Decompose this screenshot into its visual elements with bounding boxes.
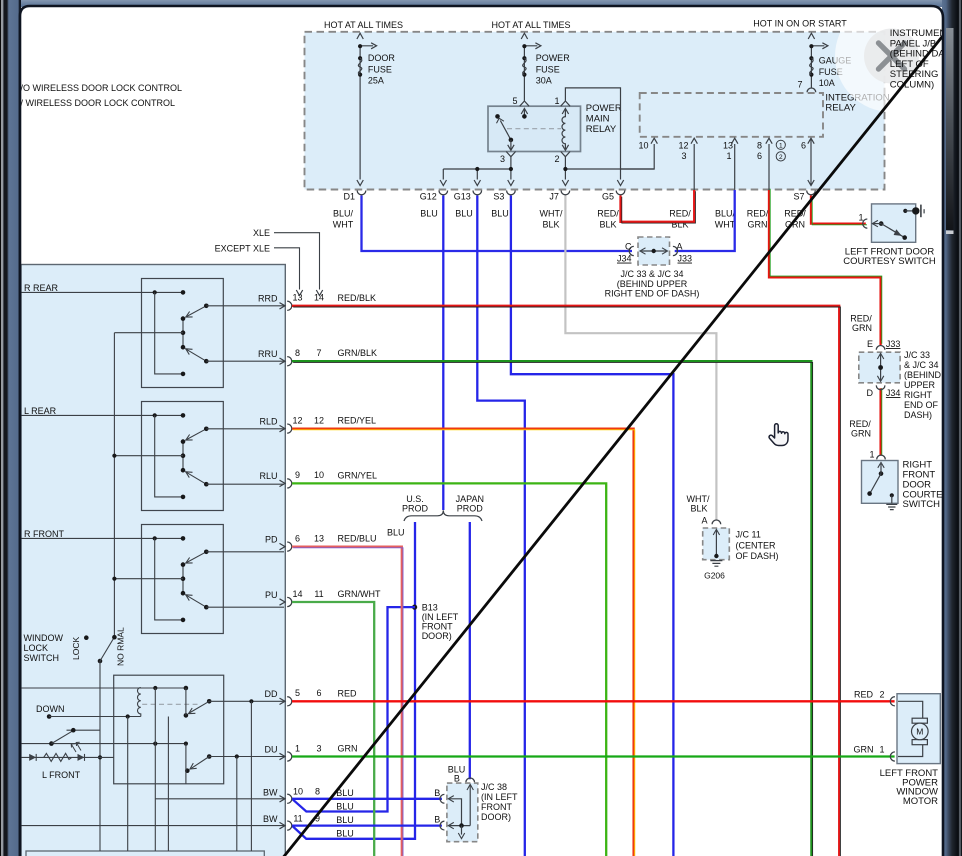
svg-text:RRU: RRU bbox=[258, 349, 278, 359]
svg-text:B: B bbox=[434, 815, 440, 825]
svg-text:SWITCH: SWITCH bbox=[24, 653, 60, 663]
splice B13 bbox=[412, 605, 417, 610]
window lock bus bbox=[113, 333, 115, 638]
wire BLU: BW1 straight to J/C38 pin B bbox=[292, 798, 442, 800]
gray stubs: integration pins 12/3 13/1 8/6 through J/B edge bbox=[693, 144, 695, 191]
svg-text:UPPER: UPPER bbox=[904, 380, 936, 390]
diagonal annotation line bbox=[284, 35, 944, 856]
svg-text:J/C 11: J/C 11 bbox=[736, 530, 761, 540]
svg-text:BLU/: BLU/ bbox=[715, 208, 736, 218]
svg-text:FUSE: FUSE bbox=[536, 64, 560, 74]
switch module L FRONT (latching relay) bbox=[114, 675, 224, 784]
connector RLU on master switch, pins 9/10 bbox=[280, 480, 286, 486]
lock contact (dead end) bbox=[84, 635, 89, 640]
svg-text:J/C 33 & J/C 34: J/C 33 & J/C 34 bbox=[620, 269, 683, 279]
internal verticals to lower edge bbox=[127, 717, 129, 852]
svg-text:2: 2 bbox=[779, 154, 783, 161]
svg-text:30A: 30A bbox=[536, 76, 552, 86]
integration pin 8/6 bbox=[766, 138, 772, 144]
svg-text:EXCEPT XLE: EXCEPT XLE bbox=[215, 243, 270, 253]
svg-text:OF DASH): OF DASH) bbox=[736, 551, 779, 561]
svg-text:WHT/: WHT/ bbox=[687, 494, 710, 504]
svg-text:GRN: GRN bbox=[851, 429, 871, 439]
ground G206 bbox=[710, 561, 722, 567]
fuse DOOR FUSE 25A bbox=[359, 47, 361, 180]
window chrome right edge bbox=[942, 0, 962, 856]
window chrome left edge bbox=[0, 0, 21, 856]
switch module R FRONT bbox=[142, 525, 224, 634]
R REAR center contacts bbox=[182, 319, 184, 348]
wire: relay pin2 / rail to pin10 riser and J7 bbox=[564, 157, 566, 180]
svg-text:BW: BW bbox=[263, 814, 278, 824]
R REAR up-contact arm bbox=[186, 349, 207, 361]
svg-text:W/ WIRELESS DOOR LOCK CONTROL: W/ WIRELESS DOOR LOCK CONTROL bbox=[12, 98, 175, 108]
relay internal: pin5 stub and contact bbox=[523, 110, 525, 117]
svg-text:25A: 25A bbox=[368, 76, 384, 86]
svg-text:1: 1 bbox=[726, 151, 731, 161]
wire: R FRONT feed bbox=[21, 537, 183, 539]
wire: DD output inside box bbox=[209, 700, 284, 702]
svg-text:5: 5 bbox=[512, 96, 517, 106]
svg-text:A: A bbox=[701, 515, 707, 525]
J/C38 internals bbox=[450, 799, 462, 826]
L FRONT relay coil bbox=[137, 688, 140, 717]
svg-text:PROD: PROD bbox=[402, 504, 429, 514]
motor internal wiring bbox=[898, 701, 923, 718]
manual switch arm near lamp bbox=[49, 741, 54, 746]
svg-text:RIGHT: RIGHT bbox=[904, 390, 933, 400]
svg-text:14: 14 bbox=[292, 589, 302, 599]
svg-text:12: 12 bbox=[292, 415, 302, 425]
R FRONT center contacts bbox=[182, 565, 184, 594]
svg-text:(BEHIND: (BEHIND bbox=[904, 370, 942, 380]
svg-text:SWITCH: SWITCH bbox=[903, 499, 941, 510]
svg-text:S7: S7 bbox=[793, 191, 804, 201]
switch module L REAR bbox=[142, 402, 224, 511]
svg-text:MAIN: MAIN bbox=[586, 114, 610, 125]
svg-text:(BEHIND UPPER: (BEHIND UPPER bbox=[617, 279, 688, 289]
svg-text:HOT IN ON OR START: HOT IN ON OR START bbox=[753, 19, 847, 29]
svg-text:RIGHT END OF DASH): RIGHT END OF DASH) bbox=[605, 288, 700, 298]
svg-text:XLE: XLE bbox=[253, 228, 270, 238]
wire: relay pin1 up-over-down to G5 junction bbox=[565, 88, 620, 180]
svg-text:END OF: END OF bbox=[904, 400, 939, 410]
R FRONT output wires to connectors bbox=[206, 551, 284, 553]
svg-text:BLU/: BLU/ bbox=[333, 208, 354, 218]
svg-text:J7: J7 bbox=[549, 191, 559, 201]
svg-text:NO RMAL: NO RMAL bbox=[116, 627, 126, 666]
svg-text:L REAR: L REAR bbox=[24, 406, 57, 416]
svg-text:GRN: GRN bbox=[854, 744, 874, 754]
R REAR common feed from lock bus bbox=[114, 332, 183, 334]
svg-text:(IN LEFT: (IN LEFT bbox=[481, 792, 518, 802]
svg-text:R REAR: R REAR bbox=[24, 283, 59, 293]
junction connector J/C 38 bbox=[466, 778, 475, 782]
svg-text:1: 1 bbox=[295, 743, 300, 753]
svg-text:DU: DU bbox=[265, 744, 278, 754]
svg-text:GRN/BLK: GRN/BLK bbox=[338, 348, 378, 358]
svg-text:WHT: WHT bbox=[715, 220, 736, 230]
wire: mid rail bbox=[21, 743, 186, 745]
junction connector J/C 33 & J/C 34 (C/A) bbox=[638, 237, 670, 265]
svg-text:8: 8 bbox=[757, 141, 762, 151]
svg-text:RLD: RLD bbox=[259, 416, 278, 426]
svg-text:U.S.: U.S. bbox=[406, 494, 424, 504]
svg-text:COLUMN): COLUMN) bbox=[890, 80, 934, 91]
svg-text:RED/: RED/ bbox=[669, 208, 691, 218]
relay box: integration relay (dashed) bbox=[640, 93, 823, 137]
svg-text:RED/YEL: RED/YEL bbox=[338, 416, 377, 426]
connector variant marks (1)(2) bbox=[776, 140, 785, 149]
svg-text:POWER: POWER bbox=[536, 53, 571, 63]
svg-text:RED/: RED/ bbox=[747, 208, 769, 218]
svg-text:BLU: BLU bbox=[336, 801, 354, 811]
svg-text:2: 2 bbox=[879, 690, 884, 700]
instrument panel junction block (dashed box) bbox=[305, 32, 885, 190]
integration pin 13/1 bbox=[732, 138, 738, 144]
svg-text:6: 6 bbox=[801, 141, 806, 151]
wire BLU/WHT: J/C33 pin A to integration 13/1 bbox=[675, 190, 735, 251]
svg-text:G12: G12 bbox=[420, 191, 437, 201]
wire BLU/WHT: D1 to J/C34 pin C bbox=[362, 196, 633, 252]
connector DU on master switch, pins 1/3 bbox=[280, 753, 286, 759]
svg-text:DOOR): DOOR) bbox=[481, 812, 511, 822]
svg-text:D1: D1 bbox=[343, 191, 355, 201]
wire: door fuse to D1 with down arrow bbox=[357, 180, 363, 186]
svg-text:RELAY: RELAY bbox=[825, 103, 856, 114]
wire RED/GRN: J/C34 pin D down to right front door courtesy switch bbox=[879, 388, 881, 455]
svg-text:6: 6 bbox=[295, 533, 300, 543]
relay internal: dashed link bbox=[507, 128, 561, 130]
connector DD on master switch, pins 5/6 bbox=[280, 698, 286, 704]
connector G5 at x=620.5 on J/B edge bbox=[616, 191, 625, 195]
connector PU on master switch, pins 14/11 bbox=[280, 599, 286, 605]
L REAR up-contact arm bbox=[186, 472, 207, 484]
svg-text:13: 13 bbox=[314, 533, 324, 543]
svg-text:J34: J34 bbox=[886, 388, 901, 398]
svg-text:S3: S3 bbox=[493, 191, 504, 201]
door plunger contact bbox=[903, 209, 907, 213]
svg-text:PD: PD bbox=[265, 534, 278, 544]
svg-text:RED: RED bbox=[338, 688, 358, 698]
svg-text:GRN: GRN bbox=[748, 220, 768, 230]
L REAR output wires to connectors bbox=[206, 428, 284, 430]
motor symbol M bbox=[912, 718, 927, 723]
integration pin 12/3 bbox=[691, 138, 697, 144]
svg-text:BLK: BLK bbox=[599, 220, 616, 230]
svg-text:B: B bbox=[434, 788, 440, 798]
svg-text:& J/C 34: & J/C 34 bbox=[904, 360, 939, 370]
svg-text:C: C bbox=[625, 242, 632, 252]
svg-text:GRN: GRN bbox=[852, 323, 872, 333]
connector G13 at x=477.3 on J/B edge bbox=[473, 191, 482, 195]
svg-text:7: 7 bbox=[797, 80, 802, 90]
svg-text:RED: RED bbox=[854, 690, 874, 700]
svg-text:BLU: BLU bbox=[420, 208, 438, 218]
svg-text:G5: G5 bbox=[602, 191, 614, 201]
svg-text:RED/: RED/ bbox=[597, 208, 619, 218]
svg-text:DOWN: DOWN bbox=[36, 704, 65, 714]
svg-text:RED/BLU: RED/BLU bbox=[338, 534, 377, 544]
bottom partial component box bbox=[26, 851, 264, 856]
relay internal: movable arm bbox=[500, 121, 511, 140]
svg-text:BLU: BLU bbox=[387, 528, 405, 538]
svg-text:G13: G13 bbox=[454, 191, 471, 201]
wire RED/GRN: S7 to left front door courtesy switch bbox=[811, 196, 866, 224]
window chrome top band bbox=[0, 0, 962, 7]
R REAR down-contact arm bbox=[186, 306, 207, 317]
svg-text:WINDOW: WINDOW bbox=[24, 633, 64, 643]
wire: integration pin 10 down-left joining G5 drop bbox=[621, 144, 655, 169]
R FRONT up-contact arm bbox=[186, 595, 207, 607]
L REAR common feed from lock bus bbox=[114, 455, 183, 457]
svg-text:10: 10 bbox=[638, 141, 648, 151]
R REAR output wires to connectors bbox=[206, 305, 284, 307]
DD switch arm bbox=[207, 699, 212, 704]
svg-text:GRN/WHT: GRN/WHT bbox=[338, 589, 381, 599]
relay internal: fixed contact bbox=[495, 114, 500, 119]
wire RED/GRN: integration 8/6 to E/J33 riser bbox=[769, 190, 881, 345]
switch: left front door courtesy switch bbox=[872, 204, 916, 242]
svg-text:RED/: RED/ bbox=[850, 314, 872, 324]
wire: lock switch common down bbox=[99, 661, 101, 851]
svg-text:1: 1 bbox=[554, 96, 559, 106]
DU switch arm bbox=[207, 754, 212, 759]
svg-text:HOT AT ALL TIMES: HOT AT ALL TIMES bbox=[491, 20, 570, 30]
svg-text:10: 10 bbox=[314, 470, 324, 480]
svg-text:DOOR): DOOR) bbox=[422, 631, 452, 641]
svg-text:POWER: POWER bbox=[586, 103, 622, 114]
fuse POWER FUSE 30A bbox=[523, 47, 525, 101]
svg-text:3: 3 bbox=[500, 154, 505, 164]
svg-text:BLU: BLU bbox=[491, 208, 509, 218]
lock switch arm bbox=[98, 659, 103, 664]
connector S7 at x=811.0 on J/B edge bbox=[807, 191, 816, 195]
wire BLU: BW2 straight to J/C38 pin B bbox=[292, 824, 442, 826]
L REAR down-contact arm bbox=[186, 429, 207, 440]
svg-text:FRONT: FRONT bbox=[481, 802, 512, 812]
connector RRD on master switch, pins 13/14 bbox=[280, 303, 286, 309]
BW internal feeds bbox=[155, 798, 284, 800]
svg-text:PU: PU bbox=[265, 590, 278, 600]
svg-text:BLU: BLU bbox=[336, 828, 354, 838]
wire BLU (Japan prod): down to J/C 38 bbox=[469, 522, 471, 779]
svg-text:12: 12 bbox=[678, 141, 688, 151]
svg-text:9: 9 bbox=[295, 470, 300, 480]
ground for right courtesy switch bbox=[886, 504, 897, 509]
top-left outer corner patch bbox=[0, 0, 21, 7]
wire: top contact rail bbox=[21, 687, 186, 689]
mouse cursor (hand pointer) bbox=[769, 424, 788, 446]
wire RED/BLK: integration 12/3 loop to G5 bbox=[621, 190, 695, 222]
svg-text:1: 1 bbox=[779, 143, 783, 150]
svg-text:J33: J33 bbox=[886, 339, 901, 349]
svg-text:7: 7 bbox=[316, 348, 321, 358]
wire: R REAR feed bbox=[21, 291, 183, 293]
svg-text:E: E bbox=[867, 339, 873, 349]
svg-text:RRD: RRD bbox=[258, 294, 278, 304]
svg-text:MOTOR: MOTOR bbox=[903, 796, 938, 807]
svg-text:HOT AT ALL TIMES: HOT AT ALL TIMES bbox=[324, 20, 403, 30]
svg-text:BLK: BLK bbox=[542, 220, 559, 230]
svg-text:8: 8 bbox=[295, 348, 300, 358]
internal double arrow with splice bbox=[642, 250, 667, 252]
svg-text:D: D bbox=[867, 388, 874, 398]
wire BLU: B13 branch to BW1 jog bbox=[292, 607, 415, 811]
switch module R REAR bbox=[142, 279, 224, 388]
connector S3 at x=510.9 on J/B edge bbox=[507, 191, 516, 195]
svg-text:J/C 38: J/C 38 bbox=[481, 782, 507, 792]
svg-text:BLU: BLU bbox=[455, 208, 473, 218]
wire BLU: S3 drop, across, down to page bottom bbox=[511, 196, 674, 856]
motor: left front power window motor bbox=[897, 694, 940, 764]
connector G12 at x=443.3 on J/B edge bbox=[439, 191, 448, 195]
svg-text:DOOR: DOOR bbox=[368, 53, 396, 63]
wire BLU: G12 drop to US/JAPAN split bbox=[442, 196, 444, 511]
wire: relay pin3 rail to G12 G13 S3 bbox=[443, 157, 511, 169]
svg-text:JAPAN: JAPAN bbox=[456, 494, 484, 504]
dashed link of latching relay bbox=[142, 703, 197, 705]
connector D1 at x=361.5 on J/B edge bbox=[357, 191, 366, 195]
wire: down input bbox=[47, 714, 52, 719]
svg-text:WHT: WHT bbox=[333, 220, 354, 230]
svg-text:G206: G206 bbox=[704, 570, 725, 580]
scrollbar thumb bbox=[946, 28, 954, 230]
svg-text:LOCK: LOCK bbox=[24, 643, 49, 653]
wire BLU: G13 drop, jog, down to page bottom bbox=[477, 196, 525, 856]
relay internal: coil bbox=[562, 110, 565, 150]
svg-text:8: 8 bbox=[315, 787, 320, 797]
close button halo bbox=[835, 0, 947, 112]
svg-text:LOCK: LOCK bbox=[71, 637, 81, 660]
svg-text:RED/: RED/ bbox=[849, 419, 871, 429]
svg-text:WHT/: WHT/ bbox=[540, 208, 563, 218]
relay box: power main relay bbox=[488, 106, 581, 151]
door plunger contact to ground bbox=[890, 493, 894, 497]
close button bbox=[864, 29, 919, 84]
L REAR center contacts bbox=[182, 442, 184, 471]
svg-text:J33: J33 bbox=[678, 254, 693, 264]
R FRONT common feed from lock bus bbox=[114, 578, 183, 580]
svg-text:L FRONT: L FRONT bbox=[42, 770, 81, 780]
connector RRU on master switch, pins 8/7 bbox=[280, 358, 286, 364]
LED arrows bbox=[71, 744, 76, 752]
svg-text:3: 3 bbox=[316, 743, 321, 753]
svg-text:11: 11 bbox=[314, 589, 323, 599]
svg-text:A: A bbox=[677, 242, 683, 252]
svg-text:R FRONT: R FRONT bbox=[24, 529, 64, 539]
svg-text:FUSE: FUSE bbox=[368, 64, 392, 74]
illumination branch: diode, resistor, LED bbox=[21, 756, 114, 758]
svg-text:10A: 10A bbox=[819, 78, 835, 88]
svg-text:DD: DD bbox=[265, 689, 278, 699]
svg-text:B: B bbox=[454, 773, 460, 783]
connector RLD on master switch, pins 12/12 bbox=[280, 425, 286, 431]
fuse GAUGE FUSE 10A bbox=[810, 47, 812, 89]
power window master switch assembly box bbox=[21, 265, 285, 856]
svg-text:M: M bbox=[916, 727, 923, 737]
svg-text:5: 5 bbox=[295, 688, 300, 698]
svg-text:BLK: BLK bbox=[690, 504, 707, 514]
svg-text:11: 11 bbox=[293, 813, 302, 823]
svg-text:GRN/YEL: GRN/YEL bbox=[338, 470, 378, 480]
svg-text:J34: J34 bbox=[617, 254, 632, 264]
svg-text:6: 6 bbox=[316, 688, 321, 698]
svg-text:6: 6 bbox=[757, 151, 762, 161]
svg-text:PROD: PROD bbox=[457, 504, 484, 514]
svg-text:10: 10 bbox=[293, 787, 303, 797]
svg-text:B13: B13 bbox=[422, 602, 438, 612]
connector J7 at x=565.4 on J/B edge bbox=[561, 191, 570, 195]
svg-text:2: 2 bbox=[554, 154, 559, 164]
svg-text:1: 1 bbox=[869, 449, 874, 459]
svg-text:J/C 33: J/C 33 bbox=[904, 350, 930, 360]
svg-text:1: 1 bbox=[879, 744, 884, 754]
svg-text:RLU: RLU bbox=[259, 471, 277, 481]
connector PD on master switch, pins 6/13 bbox=[280, 543, 286, 549]
svg-text:BLU: BLU bbox=[336, 815, 354, 825]
wire BLU (U.S. prod): down through B13 to BW2 jog bbox=[292, 522, 415, 839]
svg-text:DASH): DASH) bbox=[904, 410, 932, 420]
svg-text:(CENTER: (CENTER bbox=[736, 540, 776, 550]
wire: L REAR feed bbox=[21, 414, 183, 416]
svg-text:BW: BW bbox=[263, 787, 278, 797]
wire WHT/BLK: J7 down, across to J/C 11 bbox=[565, 196, 716, 521]
svg-text:COURTESY SWITCH: COURTESY SWITCH bbox=[843, 256, 936, 267]
svg-text:RELAY: RELAY bbox=[586, 124, 617, 135]
svg-text:3: 3 bbox=[681, 151, 686, 161]
svg-text:GRN: GRN bbox=[338, 744, 358, 754]
connector BW row 1, pins 10/8 bbox=[280, 796, 286, 802]
svg-text:13: 13 bbox=[723, 141, 733, 151]
connector BW row 2, pins 11/9 bbox=[280, 822, 286, 828]
production split brace bbox=[404, 510, 482, 521]
svg-text:RED/BLK: RED/BLK bbox=[338, 293, 377, 303]
R FRONT down-contact arm bbox=[186, 552, 207, 563]
svg-text:W/O WIRELESS DOOR LOCK CONTROL: W/O WIRELESS DOOR LOCK CONTROL bbox=[12, 83, 182, 93]
svg-text:12: 12 bbox=[314, 415, 324, 425]
